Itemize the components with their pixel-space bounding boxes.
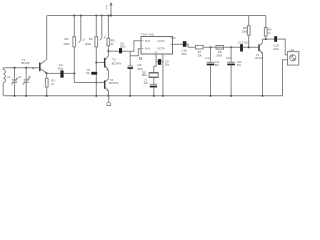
svg-text:LS1: LS1 <box>290 48 295 52</box>
node rail stub a junction <box>80 14 82 16</box>
resistor R5 <box>107 16 110 56</box>
svg-text:C1: C1 <box>7 75 11 79</box>
wire tank top <box>3 67 39 69</box>
node supply arrow junction <box>110 14 112 16</box>
svg-text:C11: C11 <box>205 56 210 60</box>
wire T1 collector to rail <box>46 16 48 60</box>
svg-text:C12: C12 <box>226 56 231 60</box>
pin 2 stub left <box>130 49 141 56</box>
capacitor C8 <box>128 51 134 96</box>
svg-text:100n: 100n <box>137 67 143 71</box>
svg-text:300k: 300k <box>216 53 222 57</box>
resistor R8 <box>216 46 224 50</box>
wire C14 to jack <box>277 39 287 55</box>
inductor L1 <box>3 68 5 96</box>
wire T2 collector to C6 <box>108 50 119 52</box>
svg-text:66n: 66n <box>237 63 242 67</box>
svg-text:100n: 100n <box>120 45 126 49</box>
wire C5 to base wire <box>95 75 97 96</box>
capacitor C11 <box>207 47 215 96</box>
capacitor C5 <box>91 72 97 75</box>
node rail stub b junction <box>101 14 103 16</box>
node C12 ground junction <box>230 95 232 97</box>
jack J1 box <box>288 52 299 66</box>
transistor T1 <box>40 59 47 73</box>
svg-text:20k: 20k <box>197 53 202 57</box>
wire C4 to node A <box>64 72 75 74</box>
pin 4 to ground <box>162 54 164 96</box>
svg-text:260k: 260k <box>64 42 71 46</box>
resistor R10 <box>264 16 267 40</box>
ground symbol <box>106 96 111 106</box>
svg-text:R4: R4 <box>65 37 69 41</box>
svg-text:C8: C8 <box>137 63 141 67</box>
node zobel ground junction <box>153 95 155 97</box>
capacitor C12 <box>227 47 235 96</box>
svg-text:66n: 66n <box>215 63 220 67</box>
node rail R2 junction <box>95 14 97 16</box>
capacitor C14 <box>274 36 277 42</box>
node C5 ground junction <box>95 95 97 97</box>
power arrow +9V <box>109 2 112 16</box>
svg-text:IN-9: IN-9 <box>145 39 151 43</box>
node pin4 ground junction <box>162 95 164 97</box>
resistor R9 <box>247 16 250 48</box>
capacitor C4 <box>60 70 63 77</box>
wire emitter to C4 <box>47 72 61 74</box>
svg-text:100n: 100n <box>57 66 63 70</box>
svg-text:BC547: BC547 <box>255 56 263 60</box>
node T4 emitter ground junction <box>261 95 263 97</box>
capacitor C1 (trimmer) <box>11 68 18 96</box>
pin ticks inside <box>141 38 173 49</box>
node C5 bottom junction <box>95 81 97 83</box>
pin 3 stub bottom <box>154 54 156 73</box>
node cap1 ground junction <box>13 95 15 97</box>
wire R2 node to T2 base <box>96 62 104 64</box>
node C8 ground junction <box>129 95 131 97</box>
node C11 ground junction <box>209 95 211 97</box>
svg-text:BC547b: BC547b <box>112 61 122 65</box>
stub wiper b (R2) <box>100 16 106 41</box>
svg-text:R2: R2 <box>89 37 93 41</box>
node R2/T2 base junction <box>95 61 97 63</box>
node base wire dot <box>32 67 34 69</box>
resistor R8 (zobel) <box>149 73 158 78</box>
svg-text:C2: C2 <box>18 75 22 79</box>
svg-text:100k: 100k <box>242 29 249 33</box>
svg-text:C13: C13 <box>238 41 244 45</box>
wire T3 emitter to ground <box>107 91 109 96</box>
capacitor C9 <box>158 59 161 65</box>
svg-text:OC74: OC74 <box>158 39 166 43</box>
jack circle <box>290 55 296 61</box>
wire C10 to R7 <box>186 44 195 47</box>
capacitor C10 <box>183 41 187 47</box>
wire T4 emitter to ground <box>262 53 264 96</box>
resistor R4 <box>73 16 76 73</box>
svg-text:C10: C10 <box>181 49 187 53</box>
node rail R5 junction <box>107 14 109 16</box>
svg-text:OC74: OC74 <box>158 47 166 51</box>
svg-text:100n: 100n <box>181 52 187 56</box>
node rail R4 junction <box>73 14 75 16</box>
capacitor C7 (zobel) <box>150 84 157 96</box>
transistor T4 <box>259 43 263 53</box>
node R1 ground junction <box>46 95 48 97</box>
node T1 emitter junction <box>46 72 48 74</box>
svg-text:260k: 260k <box>85 42 92 46</box>
svg-text:10u: 10u <box>244 40 249 44</box>
node R10 junction <box>265 38 267 40</box>
svg-text:8R2: 8R2 <box>142 73 147 77</box>
wire T2 emitter to T3 collector <box>107 70 109 79</box>
svg-text:C14: C14 <box>273 43 279 47</box>
pin bubble <box>139 57 142 59</box>
wire node A to T3 base <box>74 73 104 82</box>
node tank cap1 junction <box>13 67 15 69</box>
wire R1 to ground <box>46 87 48 96</box>
wire top supply rail <box>47 15 266 17</box>
svg-text:10u: 10u <box>165 62 170 66</box>
pin 5 stub right top <box>173 37 176 39</box>
node C11 junction <box>209 46 211 48</box>
transistor T2 <box>105 56 109 70</box>
svg-text:TDA 345: TDA 345 <box>141 33 154 37</box>
svg-text:T2: T2 <box>112 58 116 62</box>
capacitor C13 <box>240 44 243 51</box>
capacitor C2 (trimmer) <box>23 68 30 96</box>
wire R7 to T4 base <box>203 46 240 48</box>
node A junction R4/C4 <box>73 72 75 74</box>
wire C9 to gnd leg <box>161 61 163 63</box>
wire jack to ground <box>283 60 288 96</box>
wire C6 to IC pin 1 <box>122 41 141 51</box>
wire pin3 to pin4 <box>156 61 158 63</box>
node T2 collector junction <box>107 50 109 52</box>
node R9 junction <box>248 46 250 48</box>
node cap2 ground junction <box>25 95 27 97</box>
resistor R1 <box>45 78 48 87</box>
svg-text:100u: 100u <box>273 47 279 51</box>
wire T4 collector <box>263 39 275 43</box>
wire C13 to T4 base <box>243 46 259 48</box>
node T3 emitter ground junction <box>107 95 109 97</box>
node C12 junction <box>230 46 232 48</box>
svg-text:IN-9: IN-9 <box>145 47 151 51</box>
node tank cap2 junction <box>25 67 27 69</box>
svg-text:10n: 10n <box>144 81 149 85</box>
resistor R2 <box>95 16 98 72</box>
stub wiper a (R4) <box>79 16 85 43</box>
wire R8 to C7 <box>153 77 155 84</box>
op-amp U1 box <box>141 37 173 55</box>
wire T1 emitter node <box>46 73 48 78</box>
jack pins <box>291 55 295 60</box>
transistor T3 <box>105 79 109 91</box>
wire ground rail <box>3 95 283 97</box>
svg-text:BF245: BF245 <box>21 61 29 65</box>
svg-text:BC547b: BC547b <box>109 81 119 85</box>
wire IC output pin <box>173 43 183 45</box>
resistor R7 <box>196 45 204 49</box>
svg-text:10n: 10n <box>86 71 91 75</box>
capacitor C6 <box>119 48 122 53</box>
